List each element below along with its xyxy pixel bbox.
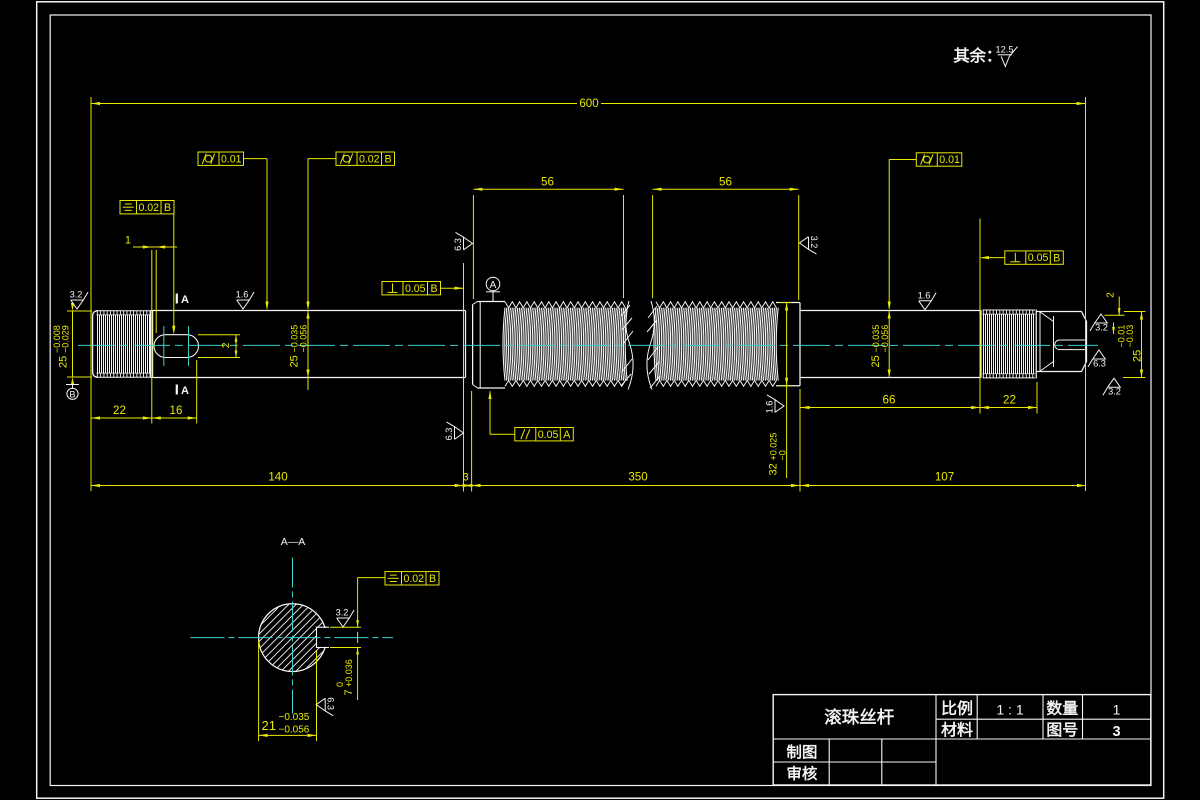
dim 22 right line [980,407,1037,409]
ext 56b left [652,195,654,298]
title 审核 [788,766,801,780]
screw1 runout slashes [621,305,633,386]
frame sym leader [173,214,175,330]
screw land 1 chamfer corners [473,302,478,305]
frame sym section leader [358,577,385,579]
title 材料 [941,722,956,737]
right thread flanks [984,314,1034,374]
shoulder face at x465 [465,311,467,377]
svg-text:16: 16 [170,404,183,417]
dim 2 keyway width ext lines [198,334,240,336]
dia dim 32 text [767,433,787,476]
svg-text:B: B [429,573,436,585]
title block horizontal mid1 [936,718,1151,720]
left thread top OD line [97,310,151,312]
surface 3.2 end top flipped [1090,314,1108,333]
surface 1.6 at keyway shaft [236,290,254,310]
svg-text:25: 25 [1132,350,1144,362]
keyway cap centerline left [163,326,165,366]
frame parallel 0.05 A [515,428,574,441]
surface 1.6 at screw2 runout rotated [765,395,785,413]
svg-text:B: B [430,283,437,295]
svg-text:A—A: A—A [281,536,306,548]
shaft d25 bottom line left [150,377,465,379]
left thread end face [93,311,98,377]
frame cylindricity 0.02 B [336,152,395,165]
section A-A vertical centerline [292,558,294,714]
end section left face [1039,312,1041,372]
title 图号 [1048,723,1061,737]
section keyway notch mask [317,628,329,647]
frame cyl 0.01 left leader [244,158,268,160]
ext x471.6 land [471,391,473,492]
svg-text:22: 22 [113,404,126,417]
svg-text:25: 25 [58,356,70,368]
datum A symbol [486,277,500,291]
svg-text:0.02: 0.02 [359,153,380,165]
svg-text:1.6: 1.6 [236,290,249,300]
title block verticals upper [935,695,937,739]
section cut label A bottom [176,385,178,395]
svg-text:0.05: 0.05 [405,283,426,295]
svg-text:3.2: 3.2 [1095,323,1108,333]
frame par leader [490,433,515,435]
dim 600 line [91,103,577,105]
screw land 1 top edge [478,301,506,303]
left thread runout lines [149,311,151,378]
title block bottom rows verticals [828,739,830,785]
main centerline [78,344,1098,346]
svg-text:B: B [1053,252,1060,264]
dia dim 25-0.035-0.056 mid-left leader+arrows [307,159,309,308]
frame perp right leader [982,257,1005,259]
svg-text:25: 25 [870,355,882,367]
frame perp 0.05 B right [1005,251,1064,264]
right thread bottom OD line [983,377,1036,379]
svg-text:A: A [563,429,571,441]
ext 56a right [623,195,625,298]
left thread crest band verticals [97,311,150,377]
dim chain bottom 140-3-350-107 [91,485,1086,487]
dia dim 25-0.01-0.03 line [1141,312,1143,378]
title block outer [773,695,1151,785]
screw1 helix flanks [503,308,627,381]
shaft d25 top line left [150,310,465,312]
right thread root lines [983,313,1036,315]
dim 7+0.036 section ext lines [330,626,361,628]
frame cyl right leader [889,159,916,161]
screw land 1 left face [472,305,474,385]
title 数量 [1047,700,1062,715]
dim 2 right end [1105,314,1125,316]
svg-text:6.3: 6.3 [326,697,336,710]
svg-text:−0.03: −0.03 [1125,325,1135,348]
svg-text:B: B [69,389,75,399]
section cut label A top [176,294,178,304]
svg-text:12.5: 12.5 [996,45,1014,55]
ball screw section 2 break curve [647,301,654,390]
surface 3.2 right of screw1 rotated [800,236,820,254]
svg-text:3.2: 3.2 [1108,387,1121,397]
svg-text:6.3: 6.3 [444,428,454,441]
right thread top OD line [983,309,1036,311]
frame perp leader [441,287,464,289]
right thread start face [980,311,982,378]
dim 7 text [335,659,355,695]
svg-text:32: 32 [767,463,779,475]
svg-text:A: A [490,280,497,291]
svg-text:A: A [181,385,189,397]
dim 7 line upper (leader from frame) [357,578,359,628]
screw land 1 bottom edge [478,387,506,389]
keyway slot [154,335,199,358]
section circle [259,604,327,672]
ext x196.7 [196,360,198,424]
svg-text:7: 7 [343,689,355,695]
left thread root lines [97,314,151,316]
dim 22-16 left line [91,417,197,419]
dia dim 25-0.035-0.056 mid-right [888,160,890,309]
dim 2 keyway width [235,335,237,358]
ext x463.5 shoulder [463,263,465,492]
svg-text:350: 350 [628,471,647,484]
surface 6.3 section dim rotated [316,697,336,715]
svg-text:B: B [164,202,171,214]
end slot [1055,340,1087,350]
svg-text:0.05: 0.05 [538,429,559,441]
svg-text:3: 3 [1112,724,1120,740]
screw land 2 right face [799,303,801,386]
svg-text:−0.056: −0.056 [279,725,310,736]
screw2 crest zigzag top [656,302,776,308]
right thread crest band verticals [983,310,1033,378]
screw2 crest zigzag bottom [656,380,776,386]
svg-text:−0.029: −0.029 [60,325,70,353]
ball screw section 1 break curve [626,301,633,390]
svg-text:0.05: 0.05 [1028,252,1049,264]
svg-text:1: 1 [1113,702,1121,718]
svg-text:1.6: 1.6 [918,290,931,300]
frame symmetry 0.02 B section [385,572,439,585]
svg-text:56: 56 [719,176,732,189]
surface 3.2 section keyway [336,608,354,628]
frame symmetry 0.02 B left [120,201,174,214]
svg-text:25: 25 [289,355,301,367]
section A-A horizontal centerline [191,637,394,639]
ext 56b right [798,195,800,300]
svg-text:1 : 1: 1 : 1 [996,702,1023,718]
screw2 helix flanks [654,308,778,381]
dia dim 32+0.025 line [786,303,788,479]
screw1 crest zigzag top [505,302,625,308]
end section left chamfer diagonals [1040,312,1054,322]
ext x980 [979,219,981,414]
svg-text:0.02: 0.02 [403,573,424,585]
dim 7 inner ticks [357,632,359,643]
svg-text:0.02: 0.02 [138,202,159,214]
screw land 1 chamfer verticals [479,302,481,389]
frame cylindricity 0.01 right [916,153,962,166]
keyway cap centerline right [188,326,190,366]
surface 6.3 end slot flipped [1088,350,1106,369]
svg-text:0: 0 [335,682,345,687]
svg-text:−0.056: −0.056 [299,325,309,353]
svg-text:2: 2 [221,342,232,348]
svg-text:3.2: 3.2 [336,608,349,618]
dia dim 25-0.008-0.029 left end [67,310,92,312]
ext x800 land2 [799,389,801,492]
dim 7 line lower [357,648,359,701]
screw1 crest zigzag bottom [505,380,625,386]
title 滚珠丝杆 [825,708,841,724]
svg-text:3.2: 3.2 [70,290,83,300]
svg-text:3.2: 3.2 [809,236,819,249]
svg-text:−0.035: −0.035 [279,712,310,723]
left thread flanks [98,315,150,373]
surface 1.6 right shaft [918,290,936,310]
svg-text:140: 140 [268,471,287,484]
dia dim 32+0.025 ext lines [779,302,792,304]
svg-text:A: A [181,294,189,306]
svg-text:1: 1 [125,235,131,247]
svg-text:66: 66 [883,394,896,407]
dim 66 line [801,407,981,409]
dim 21 section ext lines [258,641,260,741]
surface 3.2 left top [70,290,88,310]
ext x1037 [1036,382,1038,414]
end section outline [1036,312,1086,372]
frame perp 0.05 B left [382,282,441,295]
title block horizontal row line [773,738,1151,740]
frame cyl 0.02B leader [308,158,336,160]
section keyway notch [317,627,330,647]
left thread bottom OD line [97,376,151,378]
dim 1 keyway offset [133,246,177,248]
surface 3.2 end bottom flipped [1103,378,1121,397]
title block horizontal row line 2 [773,761,936,763]
title 制图 [787,745,801,759]
svg-text:56: 56 [541,176,554,189]
shaft d25 bottom line right [800,377,981,379]
dim 56 second line [653,188,799,190]
ext x156.2 [155,250,157,333]
svg-text:21: 21 [262,718,276,733]
svg-text:22: 22 [1003,394,1016,407]
dim 56 first line [473,188,623,190]
screw2 runout slashes [647,306,660,388]
svg-text:6.3: 6.3 [453,238,463,251]
surface 6.3 at shoulder lower rotated [444,422,464,440]
shaft d25 top line right [800,310,981,312]
svg-text:600: 600 [579,97,598,110]
qiyu remainder note [954,48,969,63]
svg-text:−0.056: −0.056 [880,325,890,353]
ext line left x91 [90,97,92,491]
ext 56a left [472,195,474,299]
svg-text:−0: −0 [777,450,787,460]
svg-text:107: 107 [935,471,954,484]
frame cylindricity 0.01 left [198,152,244,165]
surface 6.3 at shoulder rotated [453,232,473,250]
svg-text:0.01: 0.01 [939,154,960,166]
dim right small arrow at slot [1113,323,1115,335]
datum B symbol [66,384,79,386]
svg-text:6.3: 6.3 [1093,359,1106,369]
svg-text:1.6: 1.6 [765,401,775,414]
svg-text:0.01: 0.01 [221,153,242,165]
svg-text:B: B [384,153,391,165]
svg-text:+0.036: +0.036 [344,659,354,687]
end section chamfer vertical [1053,316,1055,367]
ext line right x1085.5 [1085,97,1087,491]
ext x151.8 [151,250,153,424]
svg-text:2: 2 [1106,292,1117,298]
right thread end face [1035,310,1037,379]
dia dim 25-0.01-0.03 right end ext lines [1124,311,1146,313]
dim 21 line [259,734,317,736]
title 比例 [942,701,956,716]
screw land 2 outline [776,302,800,304]
